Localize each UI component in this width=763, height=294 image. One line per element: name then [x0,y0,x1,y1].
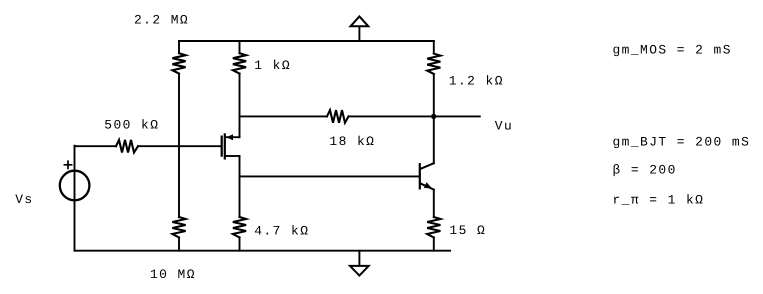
voltage source Vs circle [60,171,90,201]
wire gate line left (Vs to 500k) [75,145,117,147]
wire 10M bottom stub [178,237,180,250]
wire right branch: 1.2k bottom through Vu node to BJT collector corner [433,74,435,163]
wire 15 ohm bottom stub [433,237,435,250]
svg-text:β = 200: β = 200 [613,163,677,178]
svg-text:1.2 kΩ: 1.2 kΩ [449,73,504,88]
plus sign of source [64,161,71,168]
svg-text:18 kΩ: 18 kΩ [329,134,375,149]
wire drain output line (mosfet drain node to 18k) [240,115,328,117]
resistor 2.2 M ohm zigzag [172,53,185,73]
resistor 4.7 k ohm zigzag [233,217,246,237]
svg-text:15 Ω: 15 Ω [449,223,486,238]
svg-text:1 kΩ: 1 kΩ [254,58,291,73]
resistor 1.2 k ohm (top stub wire) [433,41,435,54]
resistor 2.2 M ohm (top stub wire) [178,41,180,53]
resistor 1 k ohm zigzag [233,53,246,73]
wire bottom ground rail [75,250,451,252]
power supply symbol [351,16,369,41]
ground symbol [350,251,369,276]
resistor 1 k ohm (top stub wire) [239,41,241,53]
svg-text:500 kΩ: 500 kΩ [104,117,159,132]
wire through source circle [74,171,76,251]
wire Vs branch top (source to gate line corner) [74,146,76,171]
resistor 500 k ohm zigzag [116,140,138,153]
resistor 15 ohm zigzag [427,217,440,237]
wire 4.7k bottom stub [239,237,241,250]
wire 500k to mosfet gate [138,145,221,147]
node dot at Vu [431,114,436,119]
svg-text:2.2 MΩ: 2.2 MΩ [134,13,189,28]
wire 18k to Vu node and output stub [349,115,480,117]
wire mosfet source to BJT base [240,175,419,177]
wire mosfet source down to 4.7k [239,156,241,217]
wire top supply rail [179,40,434,42]
wire left branch middle (2.2M to 10M) [178,74,180,217]
resistor 18 k ohm zigzag [327,110,349,123]
resistor 10 M ohm zigzag [172,217,185,237]
svg-text:10 MΩ: 10 MΩ [150,267,196,282]
mosfet M1 [222,134,240,158]
svg-text:gm_BJT = 200 mS: gm_BJT = 200 mS [613,134,751,149]
wire BJT emitter corner down to 15 ohm [433,190,435,217]
svg-text:4.7 kΩ: 4.7 kΩ [254,223,309,238]
svg-text:Vs: Vs [15,192,33,207]
svg-text:gm_MOS = 2 mS: gm_MOS = 2 mS [613,42,732,57]
wire 1k bottom to mosfet drain [239,74,241,138]
svg-text:Vu: Vu [495,119,513,134]
transistor Q1 BJT [420,163,434,189]
svg-text:r_π = 1 kΩ: r_π = 1 kΩ [613,193,705,208]
resistor 1.2 k ohm zigzag [427,54,440,74]
